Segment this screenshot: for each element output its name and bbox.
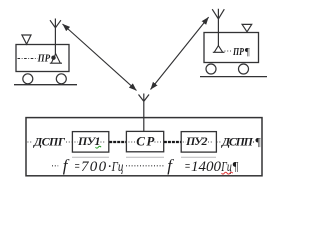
wire box edge to ДСПГ dotted — [28, 141, 34, 143]
right van wheel 1 — [206, 64, 216, 74]
left van feed wire dash-dot — [18, 58, 38, 60]
right van mast antenna — [212, 9, 224, 46]
jpeg ghost echo under ПУ2 — [181, 156, 216, 158]
svg-text:f: f — [63, 156, 70, 175]
left van wheel 2 — [56, 74, 66, 84]
right van feed wire dotted — [225, 50, 233, 52]
central mast antenna — [139, 94, 150, 132]
red spell squiggle under Гц — [222, 172, 233, 174]
jpeg ghost echo under СР — [126, 156, 164, 158]
svg-text:=: = — [184, 159, 190, 175]
antenna matching triangle left — [50, 54, 62, 63]
left van ground line — [14, 84, 77, 86]
bold dashed bus ПУ1 to СР — [109, 141, 126, 143]
vehicle body right van ПРМ — [204, 33, 259, 63]
space dots before f=700 — [52, 165, 58, 167]
green grammar squiggle under 1 — [96, 146, 102, 148]
right van wheel 2 — [239, 64, 249, 74]
svg-text:ДСПП: ДСПП — [221, 134, 254, 148]
radio link arrow right double-headed — [151, 17, 209, 89]
right van ground line — [200, 76, 267, 78]
wire dots inside ПУ2 right — [208, 141, 214, 143]
svg-text:700: 700 — [81, 159, 107, 175]
wire dots inside ПУ1 left — [75, 141, 78, 143]
svg-text:Гц: Гц — [111, 160, 124, 175]
left van wheel 1 — [23, 74, 33, 84]
block ПУ2 — [181, 132, 216, 153]
wire ДСПГ to ПУ1 dotted — [66, 141, 72, 143]
junction blob left — [51, 56, 55, 60]
block ПУ1 — [72, 132, 108, 153]
svg-text:¶: ¶ — [244, 46, 250, 58]
svg-text:¶: ¶ — [232, 160, 239, 174]
wire ПУ2 to ДСПП dotted — [217, 141, 222, 143]
vehicle body left van ПРД — [16, 45, 69, 72]
wire dots inside СР left — [129, 141, 136, 143]
left van mast antenna — [50, 19, 61, 56]
block СР — [126, 131, 163, 151]
main terminal box — [26, 118, 262, 176]
svg-text:ПУ1: ПУ1 — [77, 134, 101, 148]
svg-text:1400: 1400 — [191, 159, 222, 175]
wire dots inside ПУ1 right — [101, 141, 107, 143]
space dots between frequency labels — [126, 165, 165, 167]
antenna matching triangle right — [213, 46, 225, 53]
wire dots inside СР right — [155, 141, 162, 143]
dot after ДСПП — [253, 141, 254, 142]
bold dashed bus СР to ПУ2 — [164, 141, 181, 143]
wire dots inside ПУ2 left — [183, 141, 186, 143]
svg-text:ПУ2: ПУ2 — [185, 134, 208, 148]
jpeg ghost echo under ПУ1 — [72, 156, 109, 158]
radio link arrow left double-headed — [63, 24, 137, 91]
left van small whip antenna nabla — [22, 35, 31, 44]
svg-text:f: f — [167, 156, 174, 175]
svg-text:¶: ¶ — [255, 134, 261, 148]
svg-text:ПР: ПР — [37, 52, 51, 64]
svg-text:ПР: ПР — [232, 46, 244, 58]
right van small whip antenna nabla — [242, 24, 252, 31]
svg-text:СР: СР — [136, 133, 155, 148]
svg-text:ДСПГ: ДСПГ — [33, 134, 66, 148]
svg-text:=: = — [74, 159, 80, 175]
